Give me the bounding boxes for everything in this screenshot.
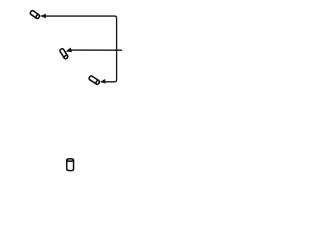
cylinder node N4 (upright can, bottom center) (67, 159, 74, 171)
cylinder node N3 (tilted can, cap facing lower-right) (88, 75, 100, 85)
cylinder node N2 (tilted can, cap facing down-right, steeper) (59, 48, 68, 59)
arrowhead into cylinder node N3 (101, 80, 106, 84)
arrowhead into cylinder node N2 (66, 48, 71, 53)
cylinder node N1 (tilted can, cap facing lower-right) (30, 10, 41, 19)
wire: top edge from trunk to node N1, shared vertical trunk, bottom elbow to node N3 (45, 16, 116, 82)
arrowhead into cylinder node N1 (41, 14, 46, 17)
wire: middle edge horizontal to node N2 (71, 49, 122, 51)
